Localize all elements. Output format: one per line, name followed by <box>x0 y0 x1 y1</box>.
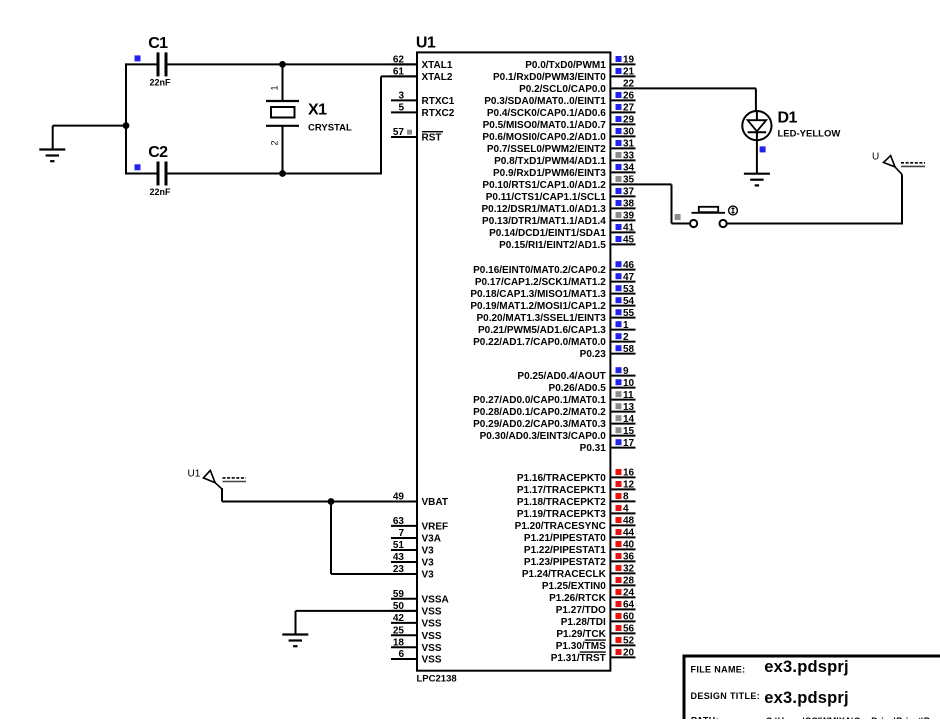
svg-text:30: 30 <box>623 127 635 138</box>
svg-text:34: 34 <box>623 163 635 174</box>
svg-text:P0.14/DCD1/EINT1/SDA1: P0.14/DCD1/EINT1/SDA1 <box>489 228 606 239</box>
svg-text:P1.26/RTCK: P1.26/RTCK <box>549 593 606 604</box>
svg-text:58: 58 <box>623 344 635 355</box>
svg-text:12: 12 <box>623 480 635 491</box>
svg-text:P0.11/CTS1/CAP1.1/SCL1: P0.11/CTS1/CAP1.1/SCL1 <box>486 192 606 203</box>
svg-text:P0.17/CAP1.2/SCK1/MAT1.2: P0.17/CAP1.2/SCK1/MAT1.2 <box>475 277 606 288</box>
svg-text:P0.8/TxD1/PWM4/AD1.1: P0.8/TxD1/PWM4/AD1.1 <box>494 156 606 167</box>
svg-text:P0.21/PWM5/AD1.6/CAP1.3: P0.21/PWM5/AD1.6/CAP1.3 <box>478 325 606 336</box>
svg-text:V3: V3 <box>422 546 435 557</box>
svg-text:52: 52 <box>623 636 635 647</box>
svg-text:P0.13/DTR1/MAT1.1/AD1.4: P0.13/DTR1/MAT1.1/AD1.4 <box>482 216 606 227</box>
svg-text:VREF: VREF <box>422 522 449 533</box>
svg-text:DESIGN TITLE:: DESIGN TITLE: <box>691 691 761 701</box>
svg-text:P0.20/MAT1.3/SSEL1/EINT3: P0.20/MAT1.3/SSEL1/EINT3 <box>476 313 606 324</box>
svg-text:24: 24 <box>623 588 635 599</box>
svg-text:LPC2138: LPC2138 <box>417 674 457 685</box>
svg-text:2: 2 <box>270 140 280 145</box>
svg-text:XTAL1: XTAL1 <box>422 60 453 71</box>
svg-text:P1.20/TRACESYNC: P1.20/TRACESYNC <box>515 521 606 532</box>
svg-text:11: 11 <box>623 390 634 401</box>
svg-text:P1.17/TRACEPKT1: P1.17/TRACEPKT1 <box>517 485 606 496</box>
svg-text:ex3.pdsprj: ex3.pdsprj <box>764 689 849 707</box>
svg-text:10: 10 <box>623 378 635 389</box>
svg-text:5: 5 <box>398 103 404 114</box>
svg-text:C1: C1 <box>148 35 168 52</box>
svg-text:P0.9/RxD1/PWM6/EINT3: P0.9/RxD1/PWM6/EINT3 <box>493 168 606 179</box>
svg-text:P1.23/PIPESTAT2: P1.23/PIPESTAT2 <box>524 557 606 568</box>
svg-text:P0.10/RTS1/CAP1.0/AD1.2: P0.10/RTS1/CAP1.0/AD1.2 <box>482 180 606 191</box>
svg-text:RTXC2: RTXC2 <box>422 108 455 119</box>
svg-text:42: 42 <box>393 613 405 624</box>
svg-text:C2: C2 <box>148 144 168 161</box>
svg-text:1: 1 <box>269 85 279 90</box>
svg-text:P0.31: P0.31 <box>580 443 607 454</box>
svg-text:22nF: 22nF <box>150 78 172 88</box>
svg-text:P1.31/TRST: P1.31/TRST <box>551 653 606 664</box>
svg-text:22: 22 <box>623 79 635 90</box>
svg-text:37: 37 <box>623 187 635 198</box>
svg-text:P0.23: P0.23 <box>580 349 607 360</box>
svg-text:27: 27 <box>623 103 635 114</box>
svg-text:14: 14 <box>623 414 635 425</box>
svg-text:P1.25/EXTIN0: P1.25/EXTIN0 <box>542 581 606 592</box>
svg-text:20: 20 <box>623 648 635 659</box>
svg-text:P0.25/AD0.4/AOUT: P0.25/AD0.4/AOUT <box>517 371 605 382</box>
svg-text:VSS: VSS <box>422 655 442 666</box>
svg-text:8: 8 <box>623 492 629 503</box>
svg-text:36: 36 <box>623 552 635 563</box>
svg-text:P1.29/TCK: P1.29/TCK <box>556 629 606 640</box>
svg-text:P1.21/PIPESTAT0: P1.21/PIPESTAT0 <box>524 533 606 544</box>
svg-text:16: 16 <box>623 468 635 479</box>
svg-text:FILE NAME:: FILE NAME: <box>691 664 746 674</box>
svg-text:22nF: 22nF <box>150 187 172 197</box>
svg-text:57: 57 <box>393 127 405 138</box>
svg-text:64: 64 <box>623 600 635 611</box>
svg-text:P1.28/TDI: P1.28/TDI <box>561 617 606 628</box>
svg-text:P0.7/SSEL0/PWM2/EINT2: P0.7/SSEL0/PWM2/EINT2 <box>487 144 606 155</box>
svg-text:P0.18/CAP1.3/MISO1/MAT1.3: P0.18/CAP1.3/MISO1/MAT1.3 <box>470 289 606 300</box>
svg-text:40: 40 <box>623 540 635 551</box>
svg-text:U: U <box>872 152 879 163</box>
svg-text:43: 43 <box>393 552 405 563</box>
svg-text:35: 35 <box>623 175 635 186</box>
svg-text:VSS: VSS <box>422 619 442 630</box>
svg-text:33: 33 <box>623 151 635 162</box>
svg-text:P0.19/MAT1.2/MOSI1/CAP1.2: P0.19/MAT1.2/MOSI1/CAP1.2 <box>470 301 606 312</box>
svg-text:P1.24/TRACECLK: P1.24/TRACECLK <box>522 569 607 580</box>
svg-text:P1.19/TRACEPKT3: P1.19/TRACEPKT3 <box>517 509 606 520</box>
svg-text:CRYSTAL: CRYSTAL <box>308 123 352 134</box>
svg-text:13: 13 <box>623 402 635 413</box>
svg-text:17: 17 <box>623 438 635 449</box>
svg-text:46: 46 <box>623 260 635 271</box>
svg-text:U1: U1 <box>416 35 436 52</box>
svg-text:P0.6/MOSI0/CAP0.2/AD1.0: P0.6/MOSI0/CAP0.2/AD1.0 <box>482 132 606 143</box>
svg-text:60: 60 <box>623 612 635 623</box>
svg-text:XTAL2: XTAL2 <box>422 72 453 83</box>
svg-text:VSS: VSS <box>422 643 442 654</box>
svg-text:VBAT: VBAT <box>422 497 448 508</box>
svg-text:RTXC1: RTXC1 <box>422 96 455 107</box>
svg-text:P0.27/AD0.0/CAP0.1/MAT0.1: P0.27/AD0.0/CAP0.1/MAT0.1 <box>473 395 606 406</box>
svg-text:P0.4/SCK0/CAP0.1/AD0.6: P0.4/SCK0/CAP0.1/AD0.6 <box>487 108 606 119</box>
svg-text:V3: V3 <box>422 570 435 581</box>
svg-text:18: 18 <box>393 637 405 648</box>
svg-text:ex3.pdsprj: ex3.pdsprj <box>764 658 849 676</box>
svg-text:P0.30/AD0.3/EINT3/CAP0.0: P0.30/AD0.3/EINT3/CAP0.0 <box>480 431 607 442</box>
svg-text:P0.26/AD0.5: P0.26/AD0.5 <box>549 383 607 394</box>
svg-text:P0.12/DSR1/MAT1.0/AD1.3: P0.12/DSR1/MAT1.0/AD1.3 <box>481 204 606 215</box>
svg-text:V3A: V3A <box>422 534 441 545</box>
svg-text:P1.18/TRACEPKT2: P1.18/TRACEPKT2 <box>517 497 606 508</box>
svg-text:59: 59 <box>393 589 405 600</box>
svg-text:1: 1 <box>623 320 629 331</box>
svg-text:P1.16/TRACEPKT0: P1.16/TRACEPKT0 <box>517 473 606 484</box>
svg-text:3: 3 <box>398 91 404 102</box>
svg-text:47: 47 <box>623 272 635 283</box>
svg-text:V3: V3 <box>422 558 435 569</box>
svg-text:7: 7 <box>398 528 404 539</box>
svg-text:9: 9 <box>623 366 629 377</box>
svg-text:19: 19 <box>623 55 635 66</box>
svg-text:44: 44 <box>623 528 635 539</box>
svg-text:P0.28/AD0.1/CAP0.2/MAT0.2: P0.28/AD0.1/CAP0.2/MAT0.2 <box>473 407 606 418</box>
svg-text:29: 29 <box>623 115 635 126</box>
svg-text:P0.22/AD1.7/CAP0.0/MAT0.0: P0.22/AD1.7/CAP0.0/MAT0.0 <box>473 337 606 348</box>
svg-text:D1: D1 <box>778 110 798 127</box>
svg-text:P0.29/AD0.2/CAP0.3/MAT0.3: P0.29/AD0.2/CAP0.3/MAT0.3 <box>473 419 606 430</box>
svg-text:P1.27/TDO: P1.27/TDO <box>556 605 606 616</box>
svg-text:2: 2 <box>623 332 629 343</box>
svg-text:P1.22/PIPESTAT1: P1.22/PIPESTAT1 <box>524 545 606 556</box>
svg-text:P0.5/MISO0/MAT0.1/AD0.7: P0.5/MISO0/MAT0.1/AD0.7 <box>483 120 607 131</box>
svg-text:P0.1/RxD0/PWM3/EINT0: P0.1/RxD0/PWM3/EINT0 <box>493 72 606 83</box>
svg-text:21: 21 <box>623 67 635 78</box>
svg-text:U1: U1 <box>188 469 201 480</box>
svg-text:26: 26 <box>623 91 635 102</box>
svg-text:P0.2/SCL0/CAP0.0: P0.2/SCL0/CAP0.0 <box>519 84 606 95</box>
svg-text:41: 41 <box>623 223 635 234</box>
svg-text:55: 55 <box>623 308 635 319</box>
svg-text:P0.0/TxD0/PWM1: P0.0/TxD0/PWM1 <box>525 60 606 71</box>
svg-text:48: 48 <box>623 516 635 527</box>
svg-text:32: 32 <box>623 564 635 575</box>
svg-text:VSSA: VSSA <box>422 594 449 605</box>
svg-text:4: 4 <box>623 504 629 515</box>
svg-text:25: 25 <box>393 625 405 636</box>
svg-text:53: 53 <box>623 284 635 295</box>
svg-text:PATH:: PATH: <box>691 716 719 720</box>
svg-text:51: 51 <box>393 540 405 551</box>
svg-text:X1: X1 <box>308 101 327 118</box>
svg-text:15: 15 <box>623 426 635 437</box>
svg-text:LED-YELLOW: LED-YELLOW <box>778 129 841 140</box>
svg-text:54: 54 <box>623 296 635 307</box>
svg-text:56: 56 <box>623 624 635 635</box>
svg-text:P0.16/EINT0/MAT0.2/CAP0.2: P0.16/EINT0/MAT0.2/CAP0.2 <box>473 265 606 276</box>
svg-text:45: 45 <box>623 235 635 246</box>
svg-text:28: 28 <box>623 576 635 587</box>
svg-text:38: 38 <box>623 199 635 210</box>
svg-text:RST: RST <box>422 133 442 144</box>
svg-text:P1.30/TMS: P1.30/TMS <box>556 641 606 652</box>
svg-text:VSS: VSS <box>422 607 442 618</box>
svg-text:31: 31 <box>623 139 635 150</box>
svg-text:P0.15/RI1/EINT2/AD1.5: P0.15/RI1/EINT2/AD1.5 <box>499 240 606 251</box>
svg-text:63: 63 <box>393 516 405 527</box>
svg-text:P0.3/SDA0/MAT0..0/EINT1: P0.3/SDA0/MAT0..0/EINT1 <box>484 96 606 107</box>
svg-text:6: 6 <box>398 649 404 660</box>
svg-text:VSS: VSS <box>422 631 442 642</box>
svg-text:39: 39 <box>623 211 635 222</box>
